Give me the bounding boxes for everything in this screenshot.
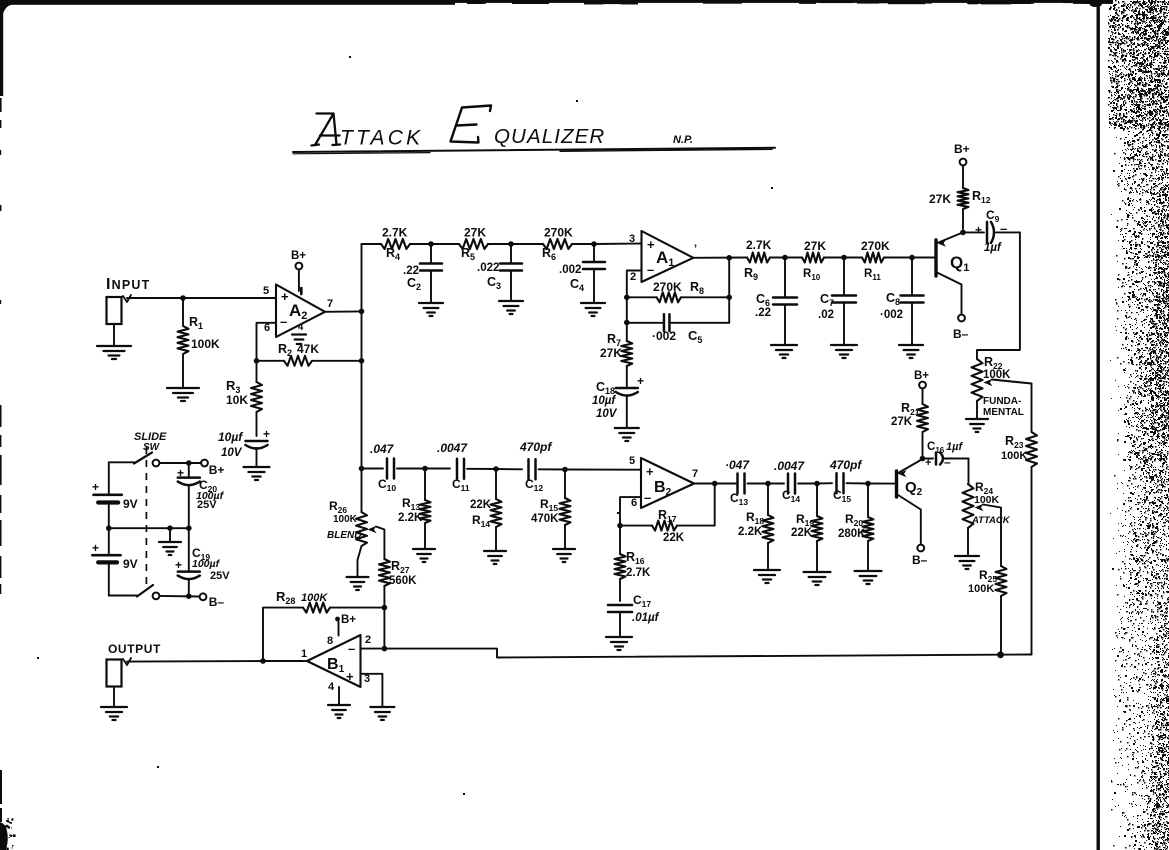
wire R28 to B1 - input (383, 608, 385, 649)
label 100K (R1) (191, 337, 220, 351)
node bus/lower chain junction (359, 466, 365, 472)
label C14 (782, 488, 800, 504)
svg-text:2.7K: 2.7K (382, 226, 408, 240)
capacitor C12 (529, 459, 566, 479)
node R12/C9/emitter (960, 230, 966, 236)
label C9 (986, 208, 1000, 224)
label R1 (189, 315, 203, 331)
label R28 100K (276, 589, 328, 606)
ground (C18) (615, 428, 639, 441)
potentiometer R24 (963, 484, 974, 555)
wire C14-C15 (817, 482, 832, 484)
node R2 right on bus (359, 358, 365, 364)
svg-text:.047: .047 (370, 442, 395, 456)
svg-text:5: 5 (629, 455, 635, 467)
label R10 (803, 268, 821, 282)
ground (C1) (244, 467, 270, 480)
ground (R18) (754, 570, 780, 583)
label 100K (R22) (983, 369, 1011, 381)
label FUNDA-MENTAL (983, 396, 1024, 418)
capacitor C10 (387, 459, 425, 479)
label 10uf (C18) (592, 395, 616, 407)
label 9V (battery1) (123, 497, 138, 511)
label .047 (C10) (370, 442, 395, 456)
node R10/C7 (841, 255, 847, 261)
wire vertical bus (A2 out / chains) (361, 244, 363, 512)
node Q2 emitter/R21/C16 (920, 456, 926, 462)
title underline (293, 148, 775, 154)
label 100K (R25) (968, 583, 994, 595)
label 270K (R6) (544, 226, 573, 240)
svg-text:+: + (647, 237, 655, 252)
label R9 (744, 266, 758, 282)
svg-text:100µf: 100µf (192, 558, 221, 570)
svg-text:OUTPUT: OUTPUT (108, 642, 161, 656)
resistor R10 (802, 253, 844, 263)
label C20 (199, 478, 217, 494)
Q2 emitter (897, 459, 923, 477)
label R15 (540, 497, 558, 513)
svg-text:2.7K: 2.7K (746, 238, 772, 252)
label Q1 (950, 253, 969, 274)
label R17 (658, 508, 677, 524)
svg-text:·002: ·002 (652, 329, 676, 343)
resistor R6 (543, 239, 594, 249)
label 2.2K (R13) (398, 512, 423, 524)
label 270K (R11) (861, 239, 890, 253)
label A1 (656, 248, 674, 269)
svg-text:MENTAL: MENTAL (983, 407, 1024, 418)
label C3 (487, 275, 501, 291)
label R18 (746, 510, 764, 526)
node R8 right (726, 295, 732, 301)
label 100K (R23) (1001, 450, 1027, 462)
ground (R13) (413, 549, 435, 562)
node R6/C4 (591, 241, 597, 247)
label .022 (C3) (477, 262, 499, 274)
wire R6 to A1 + (594, 243, 642, 246)
potentiometer R22 (972, 359, 983, 418)
pin 3 (B1) (364, 673, 370, 685)
label 100uf (C20) (196, 490, 225, 502)
label .0047 (C11) (437, 441, 468, 455)
svg-text:FUNDA-: FUNDA- (983, 396, 1021, 407)
node R5/C3 (508, 241, 514, 247)
R22 wiper (984, 379, 1032, 387)
node C19 bottom (186, 593, 192, 599)
resistor R25 (996, 566, 1007, 655)
transistor Q1 base bar (934, 240, 937, 276)
svg-text:100K: 100K (301, 592, 328, 604)
label 280K (R20) (838, 528, 866, 540)
wire input to A2 + input (127, 297, 276, 299)
node C13/R18 (765, 481, 771, 487)
B+ terminal (battery) (201, 460, 224, 477)
wire lower chain start (362, 468, 384, 470)
svg-text:TTACK: TTACK (340, 127, 423, 150)
svg-text:2.2K: 2.2K (738, 526, 763, 538)
svg-text:+: + (346, 669, 354, 684)
capacitor C7 (832, 258, 856, 345)
label R13 (402, 496, 420, 512)
resistor R20 (863, 484, 874, 571)
B+ terminal (B1) (335, 614, 356, 626)
B- terminal (battery) (200, 593, 225, 609)
label R19 (796, 512, 814, 528)
svg-text:560K: 560K (389, 575, 417, 587)
resistor R11 (862, 253, 912, 263)
label R7 (607, 332, 621, 348)
pin 7 (B2) (692, 468, 698, 480)
label C12 (525, 477, 543, 493)
svg-text:27K: 27K (891, 416, 913, 428)
label 10V (C1) (221, 447, 243, 459)
label R2 47K (278, 342, 319, 358)
svg-text:10µf: 10µf (218, 430, 243, 444)
resistor R18 (763, 484, 774, 570)
ground (C4) (581, 303, 605, 316)
svg-text:8: 8 (327, 635, 333, 647)
pin 4 (A2) (298, 322, 304, 333)
svg-text:3: 3 (364, 673, 370, 685)
svg-text:.22: .22 (755, 307, 771, 319)
resistor R4 (381, 239, 431, 249)
ground (input jack) (97, 346, 131, 359)
node C11/R14 (493, 466, 499, 472)
label A2 (289, 301, 307, 322)
ground (C3) (499, 301, 523, 314)
resistor R12 (958, 166, 969, 229)
node mid bus right (186, 525, 192, 531)
node mid bus ground tap (167, 525, 173, 531)
svg-text:+: + (975, 223, 982, 237)
label C2 (407, 276, 421, 292)
op-amp B1 (307, 635, 361, 687)
ground (R14) (484, 551, 506, 564)
label R20 (845, 512, 863, 528)
pin 3 (A1) (629, 233, 635, 245)
svg-text:10V: 10V (221, 447, 243, 459)
ground (B1 +) (370, 707, 394, 720)
resistor R19 (812, 484, 823, 572)
label 27K (R10) (804, 239, 826, 253)
ground (C6) (771, 345, 797, 358)
wire C10-C11 (425, 468, 450, 470)
B+ terminal (Q2) (914, 370, 929, 388)
ground (C7) (831, 345, 857, 358)
Q1 collector (936, 272, 962, 315)
svg-text:B+: B+ (291, 250, 306, 262)
svg-text:B+: B+ (209, 463, 225, 477)
label 25V (C19) (210, 570, 230, 582)
svg-text:.0047: .0047 (774, 459, 805, 473)
ground (C2) (419, 303, 443, 316)
svg-text:B+: B+ (914, 370, 929, 382)
svg-text:100K: 100K (191, 337, 220, 351)
svg-text:10K: 10K (226, 393, 248, 407)
label R6 (542, 246, 556, 262)
label 25V (C20) (197, 499, 217, 511)
svg-text:B+: B+ (954, 142, 970, 156)
label C8 (886, 291, 900, 307)
svg-text:470pf: 470pf (829, 458, 862, 472)
potentiometer R26 (356, 512, 367, 576)
svg-text:.0047: .0047 (437, 441, 468, 455)
label ATTACK (971, 515, 1011, 526)
node C10/R13 (422, 466, 428, 472)
svg-text:1: 1 (301, 648, 307, 660)
label 27K (R12) (929, 192, 951, 206)
svg-text:B–: B– (912, 553, 928, 567)
ground (R20) (855, 571, 882, 584)
capacitor C18 10uf (616, 374, 644, 427)
resistor R13 (420, 469, 431, 549)
label 470pf (C15) (829, 458, 862, 472)
label C7 (820, 292, 834, 308)
ground (R19) (804, 572, 831, 585)
svg-text:B–: B– (209, 595, 225, 609)
svg-text:2.7K: 2.7K (626, 567, 651, 579)
label C10 (378, 477, 396, 493)
B- terminal (Q2) (912, 545, 928, 567)
svg-text:2: 2 (365, 634, 371, 646)
capacitor C20 100uf (177, 463, 200, 528)
label INPUT (106, 276, 150, 293)
label .02 (C7) (818, 309, 834, 321)
capacitor C9 1uf (963, 221, 1020, 243)
wire A2 output (325, 310, 362, 312)
ground (A2 pin4) (292, 335, 306, 345)
resistor R16 (615, 526, 626, 601)
slide switch dashed line (145, 447, 147, 587)
label 1uf (C9) (984, 242, 1002, 254)
wire A1 output vertical (R8/C5 to out) (728, 258, 730, 323)
svg-text:47K: 47K (297, 342, 319, 356)
wire battery1 to mid bus (108, 503, 110, 529)
label 10uf (C1) (218, 430, 243, 444)
label + (battery2) (92, 541, 99, 555)
title ATTACK EQUALIZER (312, 106, 606, 150)
label SLIDE SW (134, 431, 167, 453)
pin 1 (B1) (301, 648, 307, 660)
wire output jack to ground (113, 687, 115, 706)
ground (R24) (955, 556, 979, 569)
svg-text:+: + (92, 480, 99, 494)
node R27/R28 junction (382, 605, 388, 611)
pin 6 (B2) (631, 497, 637, 509)
resistor R7 (621, 323, 632, 388)
wire battery top (109, 461, 134, 463)
ground (R26) (347, 577, 369, 590)
svg-text:–: – (280, 314, 287, 329)
resistor R8 (627, 292, 729, 302)
node C20 top (186, 460, 192, 466)
svg-text:9V: 9V (123, 497, 138, 511)
svg-text:+: + (177, 466, 184, 480)
resistor R21 (917, 389, 928, 459)
resistor R3 (251, 361, 262, 436)
svg-text:–: – (644, 490, 651, 505)
label C15 (833, 488, 851, 504)
svg-text:100K: 100K (968, 583, 994, 595)
label R27 (391, 559, 410, 575)
R26 wiper (368, 526, 385, 559)
svg-text:270K: 270K (653, 280, 682, 294)
svg-text:·047: ·047 (725, 458, 750, 472)
wire C12 to B2 + (565, 469, 641, 471)
svg-text:N.P.: N.P. (673, 134, 693, 146)
svg-text:470K: 470K (531, 513, 559, 525)
svg-text:+: + (281, 289, 289, 304)
pin 2 (B1) (365, 634, 371, 646)
label 22K (R17) (663, 532, 685, 544)
label C13 (730, 491, 748, 507)
B- terminal (Q1) (953, 315, 969, 341)
label OUTPUT (108, 642, 161, 656)
label C11 (452, 477, 470, 493)
svg-text:7: 7 (327, 298, 333, 310)
label B1 (327, 656, 345, 675)
node C5 left (624, 320, 630, 326)
wire R5-R6 (511, 243, 543, 245)
op-amp A2 (276, 285, 325, 338)
svg-text:+: + (925, 457, 931, 469)
switch blade (bottom) (137, 585, 153, 597)
svg-text:.02: .02 (818, 309, 834, 321)
switch contact (top) (153, 460, 160, 467)
label R3 (226, 378, 240, 395)
wire B1 - to right side (long return) (384, 649, 1031, 658)
capacitor C4 (583, 244, 605, 302)
Q1 emitter (936, 232, 963, 246)
label R21 (901, 401, 920, 417)
svg-text:·002: ·002 (880, 309, 903, 321)
svg-text:9V: 9V (123, 557, 138, 571)
label 2.7K (R9) (746, 238, 772, 252)
svg-text:25V: 25V (210, 570, 230, 582)
resistor R9 (747, 253, 785, 263)
capacitor C14 (788, 474, 817, 494)
op-amp B2 (641, 458, 694, 508)
wire A2 - input (257, 323, 277, 361)
label 10V (C18) (596, 408, 618, 420)
label R14 (472, 513, 490, 529)
title annotation N.P. (673, 134, 693, 146)
output jack J2 (107, 658, 132, 687)
label .01uf (C17) (632, 612, 660, 624)
svg-text:470pf: 470pf (519, 440, 552, 454)
resistor R27 (379, 559, 390, 608)
label 2.7K (R4) (382, 226, 408, 240)
node B1 output junction (260, 658, 266, 664)
label R12 (972, 189, 991, 205)
pin 8 (B1) (327, 635, 333, 647)
capacitor C6 (773, 258, 797, 345)
svg-text:–: – (944, 455, 951, 469)
svg-text:1µf: 1µf (946, 441, 963, 453)
wire B2 output (694, 483, 736, 485)
svg-text:+: + (263, 427, 270, 441)
wire R4-R5 (431, 243, 459, 245)
label C18 (596, 380, 615, 396)
svg-text:2: 2 (630, 271, 636, 283)
label R22 (984, 355, 1003, 371)
svg-text:’: ’ (694, 243, 697, 255)
pin 5 (B2) (629, 455, 635, 467)
capacitor C17 (608, 605, 632, 636)
svg-text:.002: .002 (559, 264, 581, 276)
wire switch to B- terminal (160, 595, 200, 598)
label 22K (R19) (791, 527, 813, 539)
node R2/R3 junction (254, 358, 260, 364)
label C19 (192, 546, 210, 562)
capacitor C11 (457, 459, 496, 479)
switch blade (top) (134, 453, 152, 464)
wire ground tap (169, 528, 171, 541)
node R11/C8 (909, 255, 915, 261)
node C15/R20 (865, 481, 871, 487)
svg-text:25V: 25V (197, 499, 217, 511)
wire battery2 (108, 528, 110, 595)
battery B1b 9V plates (92, 555, 120, 562)
ground (battery mid) (159, 542, 181, 555)
wire switch to B+ terminal (160, 462, 202, 464)
resistor R15 (560, 470, 571, 549)
pin 6 (A1) (694, 243, 697, 255)
B+ terminal (A2) (291, 250, 306, 269)
wire R11 to Q1 base (912, 257, 935, 259)
svg-text:B–: B– (953, 327, 969, 341)
wire top chain start (362, 243, 382, 245)
wire C15 to Q2 base (868, 483, 895, 485)
svg-text:3: 3 (629, 233, 635, 245)
wire battery1 left (108, 462, 110, 495)
label 27K (R5) (464, 226, 486, 240)
capacitor C1 10uf/10V (246, 427, 271, 466)
pin 5 (A2) (263, 285, 269, 297)
node R9/C6 (782, 255, 788, 261)
label 100uf (C19) (192, 558, 221, 570)
label 100K (R24) (974, 494, 1000, 506)
label .22 (C6) (755, 307, 771, 319)
ground (R15) (553, 549, 575, 562)
label C16 1uf (927, 441, 963, 455)
node mid bus left (106, 525, 112, 531)
svg-text:7: 7 (692, 468, 698, 480)
wire B1 + input to ground (361, 674, 383, 706)
svg-text:2.2K: 2.2K (398, 512, 423, 524)
svg-text:+: + (175, 558, 182, 572)
B+ terminal (Q1) (954, 142, 970, 165)
wire C11-C12 (496, 468, 522, 470)
capacitor C3 (500, 244, 522, 300)
svg-text:ATTACK: ATTACK (971, 515, 1011, 526)
svg-text:–: – (647, 262, 654, 277)
node A1 output junction (726, 255, 732, 261)
pin 7 (A2) (327, 298, 333, 310)
node B1 - input (382, 646, 388, 652)
pin 2 (A1) (630, 271, 636, 283)
label .002 (C4) (559, 264, 581, 276)
capacitor C5 (627, 314, 729, 331)
label .047 (C13) (725, 458, 750, 472)
wire B1 - input (361, 648, 385, 650)
wire mid bus (109, 527, 189, 529)
stray specks (37, 56, 773, 795)
wire B+ to B1 (338, 620, 340, 636)
svg-text:.01µf: .01µf (632, 612, 660, 624)
svg-text:6: 6 (631, 497, 637, 509)
